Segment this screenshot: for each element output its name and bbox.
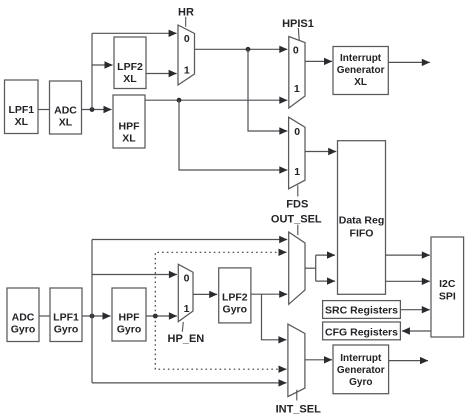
svg-text:LPF2: LPF2 (222, 292, 248, 304)
mux HPIS1 (289, 37, 305, 109)
svg-text:1: 1 (294, 166, 300, 178)
svg-text:1: 1 (184, 64, 190, 76)
wire HPF Gyro output to HP_EN mux input 1 (146, 315, 177, 317)
svg-text:Data Reg: Data Reg (339, 215, 385, 227)
label HR select (178, 7, 194, 27)
wire branch HPF XL output down to FDS mux input 1 (179, 100, 287, 170)
svg-text:HPF: HPF (119, 312, 141, 324)
svg-text:XL: XL (15, 116, 29, 128)
svg-text:1: 1 (294, 83, 300, 95)
wire LPF2 Gyro output to OUT_SEL mux (251, 293, 287, 295)
wire Interrupt Generator Gyro output (389, 360, 428, 362)
block Interrupt Generator Gyro (333, 345, 389, 394)
wire LPF1 Gyro output to HPF Gyro input (82, 315, 111, 317)
svg-text:Gyro: Gyro (349, 377, 372, 388)
wire ADC XL output to HPF XL input (82, 109, 112, 111)
block Interrupt Generator XL (333, 47, 388, 95)
node HR output junction (246, 47, 251, 52)
svg-text:Generator: Generator (337, 365, 385, 376)
block LPF1 Gyro (50, 288, 82, 342)
label FDS select (286, 185, 308, 210)
label HPIS1 select (282, 18, 314, 41)
svg-text:XL: XL (59, 117, 73, 129)
svg-text:Interrupt: Interrupt (340, 53, 382, 64)
wire HPIS1 output to Interrupt Generator XL (305, 60, 332, 62)
wire LPF1 XL to ADC XL (38, 109, 50, 111)
node LPF1 Gyro output junction (90, 314, 95, 319)
svg-text:LPF1: LPF1 (53, 312, 79, 324)
block HPF XL (113, 95, 145, 148)
wire branch HR output down to FDS mux input 0 (248, 49, 287, 131)
block LPF2 Gyro (219, 268, 251, 323)
wire I2C SPI to CFG Registers (402, 330, 431, 332)
svg-text:LPF1: LPF1 (8, 104, 34, 116)
svg-text:SRC Registers: SRC Registers (325, 305, 398, 317)
svg-text:CFG Registers: CFG Registers (325, 326, 398, 338)
wire INT_SEL mux output to Interrupt Generator Gyro (305, 359, 332, 361)
svg-text:Gyro: Gyro (223, 304, 248, 316)
svg-text:0: 0 (294, 126, 300, 138)
block LPF1 XL (5, 80, 39, 134)
block SRC Registers (323, 301, 401, 319)
block Data Reg FIFO (338, 141, 386, 295)
svg-text:Gyro: Gyro (11, 324, 36, 336)
wire FDS mux output to Data Reg FIFO (305, 151, 336, 153)
block I2C SPI (431, 237, 464, 337)
wire ADC Gyro to LPF1 Gyro (39, 315, 50, 317)
wire branch to LPF2 XL input (92, 64, 113, 66)
svg-text:SPI: SPI (439, 290, 456, 302)
svg-text:Interrupt: Interrupt (340, 353, 382, 364)
wire branch down to INT_SEL mux bottom input (92, 382, 287, 384)
svg-text:ADC: ADC (12, 312, 35, 324)
svg-text:OUT_SEL: OUT_SEL (271, 213, 322, 225)
block CFG Registers (323, 322, 401, 340)
svg-text:INT_SEL: INT_SEL (276, 403, 322, 415)
svg-text:1: 1 (184, 303, 190, 315)
wire HPF XL output to HPIS1 mux input 1 (145, 99, 287, 101)
wire FIFO output 2 to I2C SPI (386, 280, 430, 282)
mux HP_EN (178, 264, 193, 321)
mux INT_SEL (288, 324, 305, 397)
svg-text:HR: HR (178, 7, 194, 19)
label HP_EN select (168, 322, 205, 345)
wire SRC Registers to I2C SPI (400, 309, 429, 311)
wire branch to HP_EN mux input 0 (92, 274, 177, 276)
svg-text:Gyro: Gyro (117, 324, 142, 336)
wire branch LPF2 Gyro output down to INT_SEL mux input (262, 294, 287, 340)
node ADC XL output junction (90, 107, 95, 112)
wire bypass to HR mux input 0 (92, 32, 177, 34)
wire LPF2 XL output to HR mux input 1 (146, 73, 177, 75)
svg-text:Gyro: Gyro (54, 324, 79, 336)
wire vertical branch LPF1 Gyro junction (91, 240, 93, 383)
svg-text:HP_EN: HP_EN (168, 333, 205, 345)
block ADC XL (50, 81, 82, 134)
wire vertical branch from ADC XL junction up (91, 33, 93, 109)
svg-text:HPF: HPF (119, 121, 141, 133)
label INT_SEL select (276, 390, 322, 416)
wire OUT_SEL mux output split to FIFO (305, 255, 335, 281)
mux HR (178, 25, 195, 85)
block LPF2 XL (114, 37, 146, 89)
wire dotted branch down to INT_SEL mux (155, 316, 286, 369)
svg-text:I2C: I2C (439, 278, 456, 290)
svg-text:0: 0 (184, 33, 190, 45)
wire Interrupt Generator XL output (388, 61, 430, 63)
svg-text:HPIS1: HPIS1 (282, 18, 314, 30)
svg-text:ADC: ADC (54, 105, 77, 117)
wire branch up to OUT_SEL mux input (92, 239, 287, 241)
svg-text:XL: XL (123, 73, 137, 85)
svg-text:0: 0 (293, 45, 299, 57)
mux OUT_SEL (289, 232, 305, 304)
svg-text:LPF2: LPF2 (117, 61, 143, 73)
svg-text:XL: XL (122, 133, 136, 145)
label OUT_SEL select (271, 213, 322, 235)
wire dotted branch up to OUT_SEL mux (155, 252, 286, 316)
svg-text:FDS: FDS (286, 198, 308, 210)
block ADC Gyro (7, 288, 39, 342)
node HPF Gyro output junction (153, 314, 158, 319)
block HPF Gyro (112, 288, 146, 341)
wire HR mux output to HPIS1 mux input 0 (195, 48, 288, 50)
svg-text:XL: XL (354, 77, 367, 88)
node HPF XL output junction (177, 98, 182, 103)
svg-text:0: 0 (184, 272, 190, 284)
svg-text:Generator: Generator (337, 65, 385, 76)
svg-text:FIFO: FIFO (350, 228, 374, 240)
wire HP_EN mux output to LPF2 Gyro (193, 293, 217, 295)
mux FDS (289, 117, 305, 189)
wire FIFO output 1 to I2C SPI (386, 254, 430, 256)
